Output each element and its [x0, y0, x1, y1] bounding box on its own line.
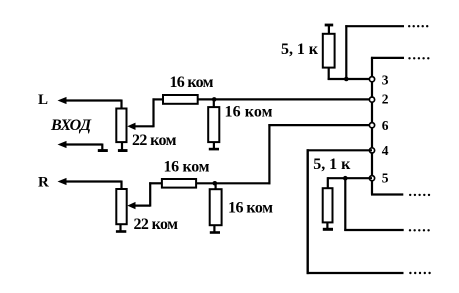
potentiometer 22 ком (L) body [116, 109, 126, 143]
svg-text:6: 6 [382, 118, 389, 133]
potentiometer R wiper arrow [127, 202, 150, 209]
svg-text:22 ком: 22 ком [134, 216, 179, 233]
resistor 5,1 к (bottom) body [323, 188, 333, 222]
potentiometer 22 ком (R) body [116, 189, 126, 224]
svg-text:R: R [38, 175, 49, 191]
wire top to right dotted [345, 25, 404, 27]
resistor 16 ком horizontal (L) body [163, 95, 198, 104]
wire resistor 5,1к to terminal 3 [328, 78, 372, 80]
wire bus bottom corner to right dotted [371, 193, 403, 195]
ground resistor 16 ком L [209, 148, 219, 151]
resistor 5,1 к bottom stub [326, 222, 328, 228]
wire middle to right dotted [344, 229, 403, 231]
wire resistor L to terminal 2 [198, 98, 373, 100]
resistor 5,1 к top bottom stub [328, 68, 330, 80]
potentiometer R bottom stub [119, 224, 121, 230]
resistor 16 ком vertical L bottom stub [213, 142, 215, 148]
terminal 3 [369, 77, 374, 82]
resistor 5,1 к (top) body [323, 34, 335, 68]
potentiometer L wiper arrow [127, 123, 153, 130]
ground potentiometer L [118, 149, 128, 152]
wire middle arrow down stub [101, 144, 103, 150]
wire resistor 5,1к bottom to terminal 5 [327, 177, 372, 179]
wire junction R down [215, 183, 217, 189]
wire bus top corner to right dotted [371, 57, 404, 59]
wire junction L down [213, 99, 215, 107]
terminal 6 [369, 123, 374, 128]
svg-text:4: 4 [382, 143, 389, 158]
dotted continuation middle [409, 229, 430, 231]
svg-text:16 ком: 16 ком [170, 74, 214, 91]
arrow L input [58, 97, 122, 104]
svg-text:16 ком: 16 ком [225, 104, 273, 121]
ground input shield [98, 149, 108, 152]
arrow input ground (middle) [58, 141, 103, 148]
wire R arrow to potentiometer top [120, 181, 122, 190]
junction node R [213, 181, 218, 186]
svg-text:L: L [38, 92, 48, 108]
svg-text:3: 3 [382, 72, 389, 87]
svg-text:5: 5 [382, 171, 389, 186]
wire left riser down [307, 149, 309, 274]
resistor 16 ком vertical R bottom stub [213, 225, 215, 231]
terminal 2 [369, 97, 374, 102]
arrow R input [58, 178, 122, 185]
wire resistor R to riser [196, 182, 270, 184]
svg-text:ВХОД: ВХОД [50, 117, 92, 134]
junction node top [344, 77, 349, 82]
resistor 16 ком vertical (R) body [210, 189, 222, 225]
supply bar top 5,1 к [325, 24, 334, 27]
wire to terminal 6 [268, 124, 372, 126]
resistor 16 ком horizontal (R) body [162, 179, 196, 188]
svg-text:16 ком: 16 ком [164, 159, 210, 176]
dotted continuation bus bottom [409, 194, 430, 196]
ground potentiometer R [116, 230, 126, 233]
wire wiper R up to resistor row [149, 182, 151, 206]
junction node bottom [343, 176, 348, 181]
bus vertical line [371, 58, 373, 195]
svg-text:5, 1 к: 5, 1 к [281, 41, 319, 58]
wire to 16 ком resistor left terminal (R) [149, 182, 162, 184]
supply stub [328, 26, 330, 34]
resistor 5,1 к (bottom) top stub [327, 177, 329, 188]
svg-text:2: 2 [382, 92, 389, 107]
wire wiper L up to resistor row [152, 98, 154, 127]
potentiometer L bottom stub [121, 142, 123, 149]
wire bottom to right dotted [307, 272, 404, 274]
svg-text:5, 1 к: 5, 1 к [313, 156, 351, 173]
terminal 4 [369, 148, 374, 153]
wire riser R up to terminal 6 [268, 124, 270, 184]
dotted continuation bottom [409, 272, 431, 274]
wire to 16 ком resistor left terminal (L) [153, 98, 164, 100]
resistor 16 ком vertical (L) body [208, 107, 219, 142]
ground resistor 16 ком R [210, 231, 220, 234]
wire terminal 4 to left [307, 149, 372, 151]
svg-text:22 ком: 22 ком [132, 132, 177, 149]
dotted continuation second [408, 57, 429, 59]
wire junction bottom down [344, 178, 346, 231]
dotted continuation top [408, 25, 428, 27]
wire L arrow to potentiometer top [120, 100, 122, 109]
svg-text:16 ком: 16 ком [228, 200, 273, 217]
junction node L [212, 97, 217, 102]
terminal 5 [369, 176, 374, 181]
ground resistor 5,1 к [323, 228, 333, 231]
wire junction up [345, 25, 347, 80]
